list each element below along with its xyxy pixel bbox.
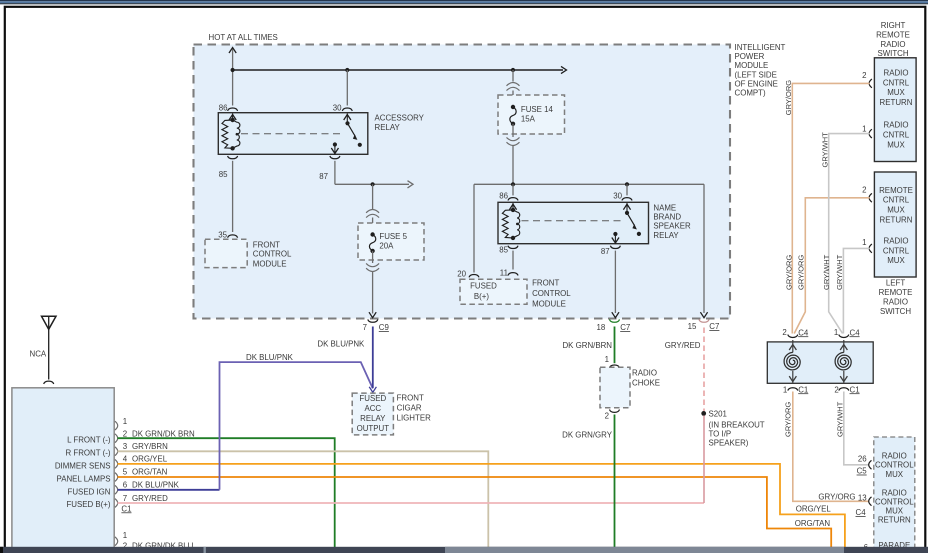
svg-text:RADIO: RADIO bbox=[882, 488, 907, 497]
fuse F5 element bbox=[369, 235, 375, 251]
svg-text:HOT AT ALL TIMES: HOT AT ALL TIMES bbox=[209, 33, 278, 42]
fused acc relay output dashed box bbox=[352, 393, 393, 435]
svg-text:87: 87 bbox=[601, 247, 610, 256]
wire DK GRN/GRY below choke bbox=[614, 415, 616, 553]
right remote radio switch box bbox=[874, 58, 916, 162]
svg-text:GRY/BRN: GRY/BRN bbox=[132, 442, 168, 451]
accessory relay coil bbox=[232, 114, 234, 121]
fuse F5 dashed box bbox=[358, 223, 424, 260]
svg-text:CONTROL: CONTROL bbox=[875, 498, 914, 507]
radio control module dashed box (bottom right) bbox=[874, 437, 915, 553]
svg-text:MUX: MUX bbox=[886, 470, 904, 479]
svg-text:7: 7 bbox=[363, 323, 367, 332]
svg-text:ORG/YEL: ORG/YEL bbox=[796, 505, 832, 514]
wire GRY/WHT C1 down to radio control mux bbox=[844, 392, 870, 465]
svg-text:CONTROL: CONTROL bbox=[532, 289, 571, 298]
connector C7 pin 18 bbox=[610, 319, 620, 322]
svg-text:18: 18 bbox=[597, 323, 606, 332]
wire GRY/BRN from radio pin 3 bbox=[118, 451, 489, 553]
accessory relay switch contact bbox=[345, 121, 349, 125]
svg-text:MODULE: MODULE bbox=[532, 300, 566, 309]
svg-text:DIMMER SENS: DIMMER SENS bbox=[55, 462, 111, 471]
svg-text:DK BLU/PNK: DK BLU/PNK bbox=[132, 481, 180, 490]
svg-text:GRY/ORG: GRY/ORG bbox=[785, 255, 794, 290]
accessory relay internal dashed centerline bbox=[241, 133, 344, 135]
svg-text:GRY/WHT: GRY/WHT bbox=[835, 401, 844, 437]
wire GRY/RED from radio pin 7 bbox=[118, 502, 705, 504]
wire: relay 85 to FCM pin 11 bbox=[512, 251, 514, 270]
svg-text:GRY/ORG: GRY/ORG bbox=[797, 255, 806, 290]
wire: hot feed vertical into bus bbox=[232, 48, 234, 106]
fused B(+) dashed box bbox=[460, 279, 527, 304]
svg-text:35: 35 bbox=[218, 231, 227, 240]
svg-text:FRONT: FRONT bbox=[253, 240, 280, 249]
connector C9 pin 7 bbox=[368, 319, 378, 322]
svg-text:SWITCH: SWITCH bbox=[880, 307, 911, 316]
inline connector below fuse 14 bbox=[507, 142, 520, 145]
radio choke dashed box bbox=[600, 367, 630, 408]
svg-text:OF ENGINE: OF ENGINE bbox=[735, 79, 778, 88]
radio C1 pin 7 bbox=[115, 499, 118, 508]
clockspring coil left bbox=[792, 340, 794, 352]
inline connector below fuse 5 bbox=[366, 268, 379, 271]
svg-text:ORG/TAN: ORG/TAN bbox=[795, 519, 831, 528]
svg-text:1: 1 bbox=[783, 385, 787, 394]
wire ORG/TAN from radio pin 5 bbox=[118, 477, 832, 553]
svg-text:4: 4 bbox=[123, 454, 128, 463]
svg-text:NCA: NCA bbox=[30, 349, 47, 358]
wire: relay 87 branch bbox=[334, 161, 336, 185]
svg-text:CONTROL: CONTROL bbox=[253, 250, 292, 259]
svg-text:FUSE 14: FUSE 14 bbox=[521, 105, 554, 114]
radio C2 pin 1 bbox=[115, 537, 118, 546]
svg-text:ACC: ACC bbox=[364, 404, 381, 413]
splice S201 bbox=[701, 411, 706, 416]
junction node bus/hot bbox=[231, 68, 235, 72]
wire GRY/ORG C1 down to radio control mux return bbox=[793, 392, 870, 502]
svg-text:MUX: MUX bbox=[887, 88, 905, 97]
svg-text:2: 2 bbox=[782, 328, 786, 337]
speaker relay coil bbox=[502, 210, 513, 238]
wire GRY/ORG left switch pin2 to C4 bbox=[794, 198, 869, 334]
wire: rail down to C7 pin 15 bbox=[703, 184, 705, 313]
wire DK BLU/PNK riser bbox=[220, 362, 373, 490]
svg-text:REMOTE: REMOTE bbox=[879, 186, 913, 195]
wire GRY/RED dashed breakout bbox=[703, 328, 705, 412]
wire: fuse14 down to speaker relay pin 86 bbox=[512, 184, 514, 195]
inline connector above fuse 5 bbox=[366, 210, 379, 213]
svg-text:LIGHTER: LIGHTER bbox=[397, 414, 431, 423]
speaker relay switch contact bbox=[625, 211, 629, 215]
bottom scrollbar bbox=[0, 547, 928, 553]
radio C1 pin 1 bbox=[115, 421, 118, 430]
svg-text:GRY/RED: GRY/RED bbox=[665, 341, 701, 350]
svg-text:3: 3 bbox=[123, 442, 128, 451]
antenna symbol bbox=[42, 316, 57, 329]
svg-text:(IN BREAKOUT: (IN BREAKOUT bbox=[709, 420, 765, 429]
svg-text:C5: C5 bbox=[857, 467, 868, 476]
svg-text:DK GRN/GRY: DK GRN/GRY bbox=[562, 430, 613, 439]
wire: main bus horizontal bbox=[233, 69, 563, 71]
svg-text:15: 15 bbox=[688, 322, 697, 331]
wire: rail down to fused B(+) pin 20 bbox=[473, 184, 475, 272]
svg-text:COMPT): COMPT) bbox=[735, 89, 766, 98]
svg-text:CNTRL: CNTRL bbox=[883, 246, 910, 255]
svg-text:RADIO: RADIO bbox=[884, 237, 909, 246]
svg-text:GRY/RED: GRY/RED bbox=[132, 494, 168, 503]
svg-text:5: 5 bbox=[123, 468, 128, 477]
svg-text:SWITCH: SWITCH bbox=[877, 49, 908, 58]
svg-text:POWER: POWER bbox=[735, 52, 765, 61]
wire: bus down to fuse 14 bbox=[512, 70, 514, 82]
wire GRY/WHT right switch pin1 to C4 bbox=[829, 134, 870, 334]
svg-text:85: 85 bbox=[499, 246, 508, 255]
svg-text:FUSED: FUSED bbox=[359, 394, 386, 403]
svg-text:86: 86 bbox=[499, 192, 508, 201]
svg-text:DK GRN/DK BRN: DK GRN/DK BRN bbox=[132, 430, 195, 439]
intelligent power module dashed box bbox=[194, 45, 731, 319]
fuse F14 element bbox=[510, 107, 516, 124]
wire: rail down to speaker relay pin 30 bbox=[626, 184, 628, 195]
svg-text:C1: C1 bbox=[121, 504, 131, 513]
svg-text:SPEAKER): SPEAKER) bbox=[709, 439, 749, 448]
wire GRY/RED S201 down bbox=[703, 416, 705, 504]
svg-text:C1: C1 bbox=[850, 385, 860, 394]
wire: speaker relay feed rail bbox=[474, 183, 704, 185]
svg-text:1: 1 bbox=[605, 355, 609, 364]
svg-text:26: 26 bbox=[858, 455, 867, 464]
svg-text:FUSED IGN: FUSED IGN bbox=[68, 488, 111, 497]
svg-text:MUX: MUX bbox=[887, 256, 905, 265]
svg-text:C9: C9 bbox=[379, 323, 390, 332]
svg-text:BRAND: BRAND bbox=[653, 213, 681, 222]
svg-text:MUX: MUX bbox=[886, 507, 904, 516]
svg-text:1: 1 bbox=[834, 328, 838, 337]
left remote radio switch box bbox=[874, 172, 916, 277]
svg-text:86: 86 bbox=[219, 104, 228, 113]
svg-text:L FRONT (-): L FRONT (-) bbox=[67, 435, 111, 444]
svg-text:RELAY: RELAY bbox=[653, 231, 679, 240]
svg-text:MUX: MUX bbox=[887, 206, 905, 215]
svg-text:RETURN: RETURN bbox=[880, 215, 913, 224]
wire: bus down to accessory relay pin 30 bbox=[346, 70, 348, 106]
window title-bar strip bbox=[0, 0, 928, 1]
radio C1 pin 3 bbox=[115, 447, 118, 456]
svg-text:(LEFT SIDE: (LEFT SIDE bbox=[735, 70, 777, 79]
svg-text:2: 2 bbox=[123, 430, 127, 439]
svg-text:C4: C4 bbox=[850, 328, 861, 337]
svg-text:GRY/ORG: GRY/ORG bbox=[784, 80, 793, 115]
wire GRY/ORG right switch pin2 to C4 bbox=[792, 83, 869, 333]
svg-text:NAME: NAME bbox=[653, 203, 676, 212]
svg-text:30: 30 bbox=[613, 192, 622, 201]
svg-text:7: 7 bbox=[123, 494, 127, 503]
svg-text:ORG/TAN: ORG/TAN bbox=[132, 468, 168, 477]
wire GRY/WHT left switch pin1 to C4 bbox=[843, 248, 869, 333]
radio unit box (left) bbox=[12, 388, 114, 553]
wire: relay 85 to front control module pin 35 bbox=[232, 161, 234, 232]
radio C1 pin 5 bbox=[115, 473, 118, 482]
svg-text:FUSE 5: FUSE 5 bbox=[379, 232, 407, 241]
svg-text:DK BLU/PNK: DK BLU/PNK bbox=[317, 340, 365, 349]
svg-text:20: 20 bbox=[457, 269, 466, 278]
svg-text:OUTPUT: OUTPUT bbox=[357, 424, 390, 433]
svg-text:1: 1 bbox=[123, 417, 127, 426]
svg-text:6: 6 bbox=[123, 481, 128, 490]
svg-text:DK GRN/BRN: DK GRN/BRN bbox=[562, 341, 612, 350]
svg-text:2: 2 bbox=[834, 385, 838, 394]
svg-text:1: 1 bbox=[862, 124, 866, 133]
svg-text:CIGAR: CIGAR bbox=[397, 404, 422, 413]
clockspring box bbox=[767, 342, 873, 383]
svg-text:GRY/WHT: GRY/WHT bbox=[835, 254, 844, 290]
wire DK BLU/PNK from C9 down bbox=[372, 327, 374, 389]
svg-text:MUX: MUX bbox=[887, 140, 905, 149]
wire DK GRN/DK BRN from radio pin 2 bbox=[118, 438, 335, 553]
svg-text:LEFT: LEFT bbox=[886, 278, 905, 287]
wire: fuse5 to connector C9 bbox=[372, 272, 374, 314]
speaker relay internal dashed centerline bbox=[522, 220, 625, 222]
svg-text:RADIO: RADIO bbox=[882, 451, 907, 460]
wire DK GRN/BRN C7-18 to radio choke bbox=[614, 327, 616, 364]
svg-text:TO I/P: TO I/P bbox=[709, 429, 732, 438]
wire: down to fuse 5 bbox=[372, 184, 374, 209]
svg-text:13: 13 bbox=[858, 493, 867, 502]
svg-text:GRY/WHT: GRY/WHT bbox=[821, 132, 830, 168]
svg-text:FRONT: FRONT bbox=[397, 394, 424, 403]
junction node bus/fuse14 bbox=[511, 68, 515, 72]
junction node bus/relay pin 30 bbox=[345, 68, 349, 72]
svg-text:C7: C7 bbox=[620, 323, 630, 332]
svg-text:11: 11 bbox=[500, 269, 508, 278]
svg-text:87: 87 bbox=[319, 172, 328, 181]
svg-text:B(+): B(+) bbox=[474, 292, 489, 301]
front control module dashed box (left) bbox=[205, 239, 247, 267]
svg-text:1: 1 bbox=[862, 238, 866, 247]
name brand speaker relay U2: box bbox=[498, 202, 649, 243]
svg-text:FUSED B(+): FUSED B(+) bbox=[66, 500, 110, 509]
radio C1 pin 4 bbox=[115, 460, 118, 469]
junction node 87/fuse5 bbox=[371, 182, 375, 186]
wire: speaker relay 87 to C7 pin 18 bbox=[614, 251, 616, 313]
inline connector above fuse 14 bbox=[507, 83, 520, 86]
svg-text:C4: C4 bbox=[856, 508, 867, 517]
svg-text:REMOTE: REMOTE bbox=[879, 288, 913, 297]
svg-text:REMOTE: REMOTE bbox=[876, 31, 910, 40]
svg-text:1: 1 bbox=[123, 531, 127, 540]
svg-text:CONTROL: CONTROL bbox=[875, 461, 914, 470]
svg-text:S201: S201 bbox=[709, 409, 727, 418]
svg-text:RETURN: RETURN bbox=[878, 516, 911, 525]
svg-text:R FRONT (-): R FRONT (-) bbox=[66, 448, 111, 457]
svg-text:INTELLIGENT: INTELLIGENT bbox=[735, 43, 786, 52]
svg-text:FRONT: FRONT bbox=[532, 278, 559, 287]
svg-text:GRY/ORG: GRY/ORG bbox=[818, 492, 855, 501]
connector C7 pin 15 bbox=[699, 319, 709, 322]
svg-text:SPEAKER: SPEAKER bbox=[653, 222, 691, 231]
fuse F14 dashed box bbox=[498, 95, 565, 134]
svg-text:MODULE: MODULE bbox=[253, 259, 287, 268]
clockspring coil right bbox=[843, 340, 845, 352]
svg-text:2: 2 bbox=[862, 71, 866, 80]
svg-text:RIGHT: RIGHT bbox=[881, 21, 906, 30]
svg-text:DK BLU/PNK: DK BLU/PNK bbox=[246, 353, 294, 362]
svg-text:ORG/YEL: ORG/YEL bbox=[132, 454, 168, 463]
svg-text:RETURN: RETURN bbox=[880, 98, 913, 107]
svg-text:RELAY: RELAY bbox=[375, 123, 401, 132]
svg-text:RADIO: RADIO bbox=[884, 121, 909, 130]
svg-text:CHOKE: CHOKE bbox=[632, 379, 660, 388]
svg-text:C7: C7 bbox=[709, 322, 719, 331]
svg-text:RADIO: RADIO bbox=[881, 40, 906, 49]
svg-text:2: 2 bbox=[862, 185, 866, 194]
svg-text:85: 85 bbox=[219, 170, 228, 179]
svg-text:CNTRL: CNTRL bbox=[883, 196, 910, 205]
wire ORG/YEL from radio pin 4 bbox=[118, 464, 845, 553]
svg-text:MODULE: MODULE bbox=[735, 61, 769, 70]
wire: fuse 14 to speaker relay feed bbox=[512, 146, 514, 184]
svg-text:PANEL LAMPS: PANEL LAMPS bbox=[57, 474, 111, 483]
svg-text:CNTRL: CNTRL bbox=[883, 78, 910, 87]
radio C1 pin 6 bbox=[115, 485, 118, 494]
wire DK BLU/PNK lower run from radio pin 6 bbox=[118, 489, 220, 491]
svg-text:15A: 15A bbox=[521, 114, 536, 123]
svg-text:C1: C1 bbox=[798, 385, 808, 394]
svg-text:CNTRL: CNTRL bbox=[883, 131, 910, 140]
svg-text:20A: 20A bbox=[379, 242, 394, 251]
svg-text:2: 2 bbox=[605, 412, 609, 421]
svg-text:RADIO: RADIO bbox=[883, 298, 908, 307]
svg-text:C4: C4 bbox=[798, 328, 809, 337]
svg-text:ACCESSORY: ACCESSORY bbox=[375, 113, 425, 122]
svg-text:RELAY: RELAY bbox=[360, 414, 386, 423]
radio C1 pin 2 bbox=[115, 434, 118, 443]
svg-text:RADIO: RADIO bbox=[884, 69, 909, 78]
svg-text:FUSED: FUSED bbox=[470, 282, 497, 291]
svg-text:GRY/ORG: GRY/ORG bbox=[783, 402, 792, 437]
svg-text:30: 30 bbox=[333, 104, 342, 113]
accessory relay U: box bbox=[218, 113, 367, 155]
svg-text:RADIO: RADIO bbox=[632, 369, 657, 378]
svg-text:GRY/WHT: GRY/WHT bbox=[822, 254, 831, 290]
